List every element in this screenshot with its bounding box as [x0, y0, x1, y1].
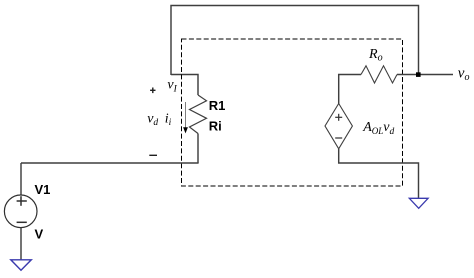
- svg-text:vd: vd: [147, 111, 158, 128]
- wire V1 bottom lead: [20, 228, 22, 260]
- wire top loop: [171, 6, 419, 76]
- ground (output side): [409, 198, 428, 208]
- svg-text:V1: V1: [35, 182, 51, 197]
- svg-text:Ro: Ro: [368, 47, 383, 64]
- svg-text:AOLvd: AOLvd: [362, 120, 394, 137]
- wire diamond bottom to ground: [339, 149, 419, 198]
- plus sign of V1: [17, 196, 27, 206]
- minus sign of dependent source: [335, 137, 342, 139]
- svg-text:vI: vI: [167, 77, 177, 94]
- wire diamond top to Ro: [339, 75, 361, 104]
- svg-text:vo: vo: [458, 65, 470, 83]
- label + (input polarity): [150, 88, 155, 94]
- current arrow i_i: [183, 102, 188, 133]
- voltage source V1: [4, 195, 37, 228]
- label minus (input polarity): [149, 154, 157, 156]
- dependent source A_OL v_d (diamond): [325, 104, 352, 149]
- svg-text:V: V: [35, 227, 44, 242]
- wire Ro to output node: [397, 74, 453, 76]
- svg-text:Ri: Ri: [209, 118, 222, 133]
- wire bottom to source V1: [21, 162, 199, 164]
- resistor R1: [190, 95, 207, 134]
- svg-text:R1: R1: [209, 98, 226, 113]
- wire V1 top lead: [20, 163, 22, 195]
- ground (V1): [11, 260, 32, 271]
- minus sign of V1: [17, 221, 27, 223]
- node output junction: [416, 72, 421, 77]
- op-amp model dashed box: [182, 39, 403, 186]
- svg-text:ii: ii: [165, 111, 172, 128]
- wire input to R1 top: [171, 75, 198, 96]
- resistor Ro: [361, 66, 397, 83]
- wire R1 bottom down: [197, 134, 199, 164]
- plus sign of dependent source: [335, 114, 342, 121]
